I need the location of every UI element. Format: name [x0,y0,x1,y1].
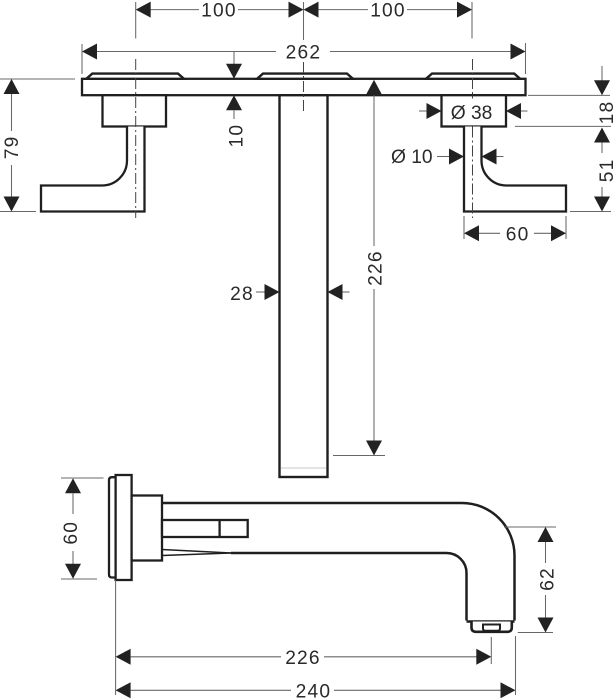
extension line 60-top [61,477,104,479]
dimension 60 (right lever length) [479,232,552,234]
centerline middle spout [303,62,305,113]
spout tube bottom edge [231,553,467,621]
extension line 60-left handle [463,216,465,239]
extension line 60-bottom [61,578,97,580]
dimension 60 (escutcheon diameter) [65,478,81,493]
svg-text:18: 18 [597,101,614,125]
svg-text:226: 226 [365,250,386,286]
extension line 18-bottom (escutcheon bottom extended) [515,125,611,127]
spout pipe aerator faint line [281,467,326,469]
svg-text:100: 100 [201,1,237,22]
valve key bar [162,520,248,537]
left lever [41,127,145,212]
svg-text:240: 240 [296,681,332,700]
valve key divider [218,520,220,537]
svg-text:79: 79 [2,136,23,160]
dimension Ø10 right arrow [482,149,497,165]
svg-text:Ø 10: Ø 10 [391,147,433,168]
aerator body [472,622,512,632]
aerator notch [483,625,500,631]
centerline left handle [135,59,137,218]
extension line 18-top (plate bottom extended) [528,94,610,96]
extension line 79-bottom [0,211,36,213]
dimension 10 arrow below [226,95,242,110]
aerator joint line [467,620,515,623]
svg-text:Ø 38: Ø 38 [451,103,493,124]
dimension Ø10 left arrow [437,156,450,158]
left escutcheon [103,95,167,126]
right escutcheon [442,95,507,126]
extension line 79-top [0,78,75,80]
dimension 18 [601,66,603,81]
extension line 62-bottom [518,632,553,634]
centerline right handle lower [472,127,474,219]
extension line 100-left [135,2,137,39]
spout tube outline [162,503,515,621]
extension line 60-right handle [565,216,567,239]
dimension 62 (spout height) [538,527,554,542]
dimension 100 left [150,9,289,11]
dimension Ø38 left arrow [419,110,427,112]
svg-text:62: 62 [537,567,558,591]
extension line 262-right [525,43,527,74]
dimension 100 right [319,9,458,11]
extension line 62-top [504,526,556,528]
plate pad left [86,74,184,79]
extension line spout outer edge [515,636,517,695]
wall plate [82,79,526,95]
extension line wall face (escutcheon) [115,580,117,695]
dimension 226 (spout reach) [116,649,131,665]
dimension 79 [4,79,20,94]
right lever [464,127,566,212]
escutcheon body cylinder [132,496,162,561]
spout pipe (front view) [280,95,328,477]
extension line 51-bottom (lever bottom extended) [570,211,611,213]
dimension 240 (spout total) [116,682,131,698]
svg-text:60: 60 [506,224,530,245]
weld wedge upper line [162,550,231,554]
dimension Ø38 right arrow [506,103,521,119]
centerline right handle upper [472,59,474,95]
plate pad right [426,74,520,79]
weld wedge lower line [162,553,231,556]
dimension 51 [594,128,610,143]
svg-text:51: 51 [597,158,614,182]
svg-text:262: 262 [286,43,322,64]
plate pad middle [257,74,353,79]
dimension 226 (spout pipe length, front view) [366,80,382,95]
dimension 262 [97,51,512,53]
svg-text:10: 10 [226,124,247,148]
svg-text:28: 28 [230,284,254,305]
centerline right handle dot [472,96,474,99]
escutcheon flange lip (side view) [109,477,116,577]
svg-text:60: 60 [61,521,82,545]
svg-text:226: 226 [285,648,321,669]
extension line aerator center [490,637,492,664]
extension line 100-center [303,2,305,40]
extension line 226-top-view bottom [333,455,385,457]
extension line 100-right [471,2,473,39]
dimension 10 (plate thickness) arrow above [233,52,235,65]
extension line 262-left [81,44,83,74]
svg-text:100: 100 [370,1,406,22]
escutcheon face disc (side view) [116,475,132,580]
